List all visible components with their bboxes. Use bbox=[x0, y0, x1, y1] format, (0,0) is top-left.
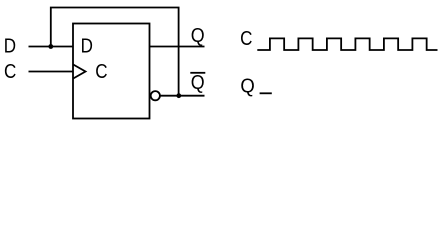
overbar of Qbar label bbox=[190, 72, 205, 74]
svg-text:Q: Q bbox=[240, 76, 254, 98]
svg-text:C: C bbox=[95, 61, 107, 83]
node D input junction bbox=[48, 44, 53, 49]
waveform clock C bbox=[257, 38, 437, 50]
svg-text:D: D bbox=[81, 36, 93, 58]
svg-text:C: C bbox=[4, 61, 16, 83]
clock edge triangle on pin C bbox=[73, 64, 86, 78]
wire Qbar output bbox=[160, 95, 205, 97]
wire feedback Qbar to D bbox=[51, 8, 179, 96]
node Qbar feedback junction bbox=[176, 93, 181, 98]
wire Q output bbox=[150, 46, 205, 48]
wire D input bbox=[29, 46, 74, 48]
waveform Q (low start segment) bbox=[260, 92, 272, 94]
D flip-flop U1 body bbox=[73, 24, 150, 119]
wire C input bbox=[29, 71, 74, 73]
svg-text:D: D bbox=[4, 36, 16, 58]
svg-text:Q: Q bbox=[191, 72, 205, 94]
svg-text:C: C bbox=[240, 28, 252, 50]
inverting bubble on Qbar output bbox=[151, 91, 160, 100]
svg-text:Q: Q bbox=[191, 25, 205, 47]
